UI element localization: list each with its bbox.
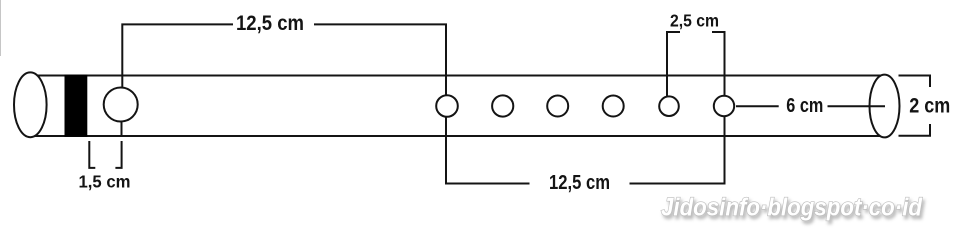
- tube right end ellipse: [870, 75, 900, 138]
- dimension 2 cm : top corner at right end: [899, 76, 931, 88]
- left image-edge artifact: [0, 0, 2, 56]
- dimension 6 cm : left line segment from hole 6: [736, 105, 779, 107]
- bottom dimension bracket 12,5 cm : right vertical below hole 6: [630, 117, 725, 184]
- tube top wall line: [37, 75, 883, 77]
- dimension 6 cm : right line segment into end ellipse: [828, 105, 886, 107]
- tube bottom wall line: [35, 135, 881, 137]
- dimension 1,5 cm : right tick below blow hole: [115, 141, 121, 168]
- blow hole vertical below to tube bottom: [121, 122, 123, 136]
- dimension 2,5 cm : right corner over hole 6: [712, 32, 725, 96]
- svg-text:Jidosinfo·blogspot·co·id: Jidosinfo·blogspot·co·id: [661, 194, 923, 222]
- dimension 2 cm : bottom corner at right end: [899, 124, 931, 136]
- finger hole 5: [659, 96, 679, 116]
- cork black band: [65, 75, 88, 137]
- svg-text:2,5 cm: 2,5 cm: [670, 10, 719, 30]
- tube left end ellipse: [14, 72, 47, 137]
- svg-text:12,5 cm: 12,5 cm: [236, 11, 304, 35]
- svg-text:1,5 cm: 1,5 cm: [79, 172, 131, 192]
- finger hole 6: [714, 96, 734, 116]
- finger hole 1: [436, 95, 458, 117]
- finger hole 4: [603, 96, 624, 117]
- svg-text:6 cm: 6 cm: [786, 95, 823, 117]
- finger hole 2: [492, 95, 513, 116]
- bottom dimension bracket 12,5 cm : left vertical below hole 1: [446, 117, 530, 184]
- finger hole 3: [547, 96, 568, 117]
- svg-text:12,5 cm: 12,5 cm: [549, 172, 610, 194]
- top dimension bracket 12,5 cm : left vertical (blow hole up): [122, 24, 233, 87]
- blow hole: [104, 88, 138, 122]
- top dimension bracket 12,5 cm : right horizontal + vertical down to hole 1: [314, 24, 446, 94]
- svg-text:2 cm: 2 cm: [909, 95, 950, 118]
- dimension 2,5 cm : left corner over hole 5: [667, 32, 680, 96]
- dimension 1,5 cm : left tick below cork: [89, 141, 95, 168]
